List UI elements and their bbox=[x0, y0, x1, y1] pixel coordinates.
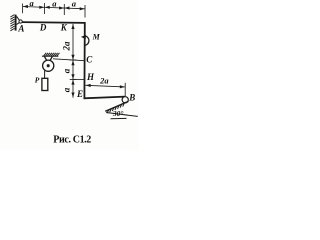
svg-text:H: H bbox=[86, 72, 95, 82]
svg-text:C: C bbox=[86, 55, 93, 65]
svg-text:A: A bbox=[17, 23, 24, 33]
svg-text:K: K bbox=[60, 23, 68, 33]
svg-text:2a: 2a bbox=[61, 41, 71, 52]
svg-text:Рис. С1.2: Рис. С1.2 bbox=[53, 135, 91, 146]
svg-text:B: B bbox=[128, 92, 135, 102]
svg-text:a: a bbox=[61, 87, 71, 92]
svg-text:D: D bbox=[39, 23, 47, 33]
svg-text:E: E bbox=[76, 89, 83, 99]
svg-text:30°: 30° bbox=[112, 109, 124, 118]
svg-text:Р: Р bbox=[35, 75, 40, 84]
svg-text:a: a bbox=[52, 0, 57, 9]
svg-text:M: M bbox=[92, 32, 101, 41]
svg-text:a: a bbox=[61, 68, 71, 73]
svg-text:a: a bbox=[72, 0, 77, 9]
svg-text:2a: 2a bbox=[99, 76, 109, 86]
